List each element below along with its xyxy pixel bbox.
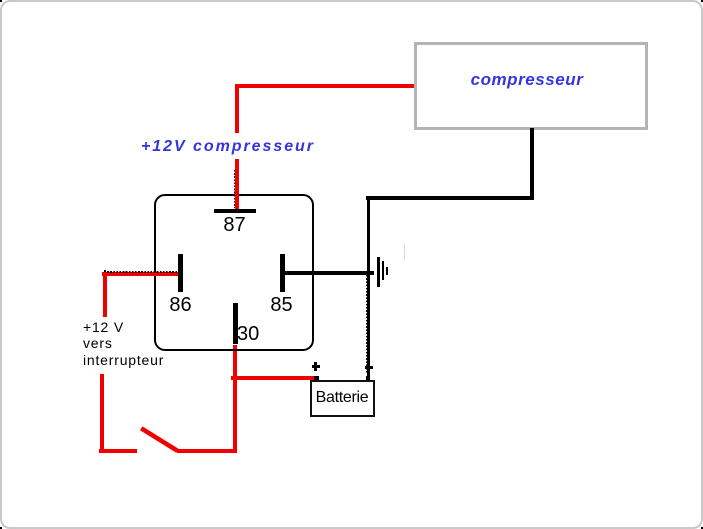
wire: black from pin 85 to ground junction [282,271,374,275]
pin label 86 [165,294,196,317]
wire: black horizontal to junction above relay [366,196,534,200]
battery plus terminal post [314,376,319,381]
wire: red horizontal to compressor box [235,84,415,88]
label: Batterie [310,389,375,407]
wire: red from pin 86 to the left [102,272,178,276]
wire: red vertical from relay pin 30 down to switch [233,345,237,453]
pin label 30 [237,323,259,346]
wire: dashed black overlay on red wire above pin 87 [234,170,236,208]
compressor M1 box [414,42,648,130]
wire: red vertical from compressor feed down to relay pin 87 [235,84,239,209]
battery plus sign [312,365,320,368]
junction tick at 86 wire corner [104,270,106,275]
wire: red down from 86 corner to +12V label [103,272,107,318]
ground [377,257,380,287]
relay K1 body [154,194,314,351]
battery minus terminal post [366,376,371,381]
relay pin 86 bar [178,254,183,292]
battery B1 box [310,380,376,417]
net label: +12V compresseur [139,133,316,159]
wire: red branch to battery plus terminal [231,376,314,380]
wire: black from compressor bottom down [530,128,534,199]
wire: red bottom horizontal from switch to pin 30 drop [177,449,236,453]
relay K1 border segment over pin 30 wire [232,349,239,351]
net label: +12 V vers interrupteur [79,317,152,374]
pin label 87 [214,214,255,237]
relay pin 30 bar [233,303,238,344]
label: compresseur [412,70,642,90]
battery minus terminal tick [365,366,373,369]
relay pin 85 bar [280,254,285,293]
pin label 85 [266,294,297,317]
wire: black vertical from junction down to battery [367,197,371,380]
wire: dashed black overlay on 86 wire [104,271,177,273]
wire: dotted overlay left of battery wire [366,275,367,374]
wire: red lower-left vertical to switch [100,374,104,453]
wire: red bottom-left horizontal to switch contact [99,449,137,453]
relay pin 87 bar [214,209,256,214]
